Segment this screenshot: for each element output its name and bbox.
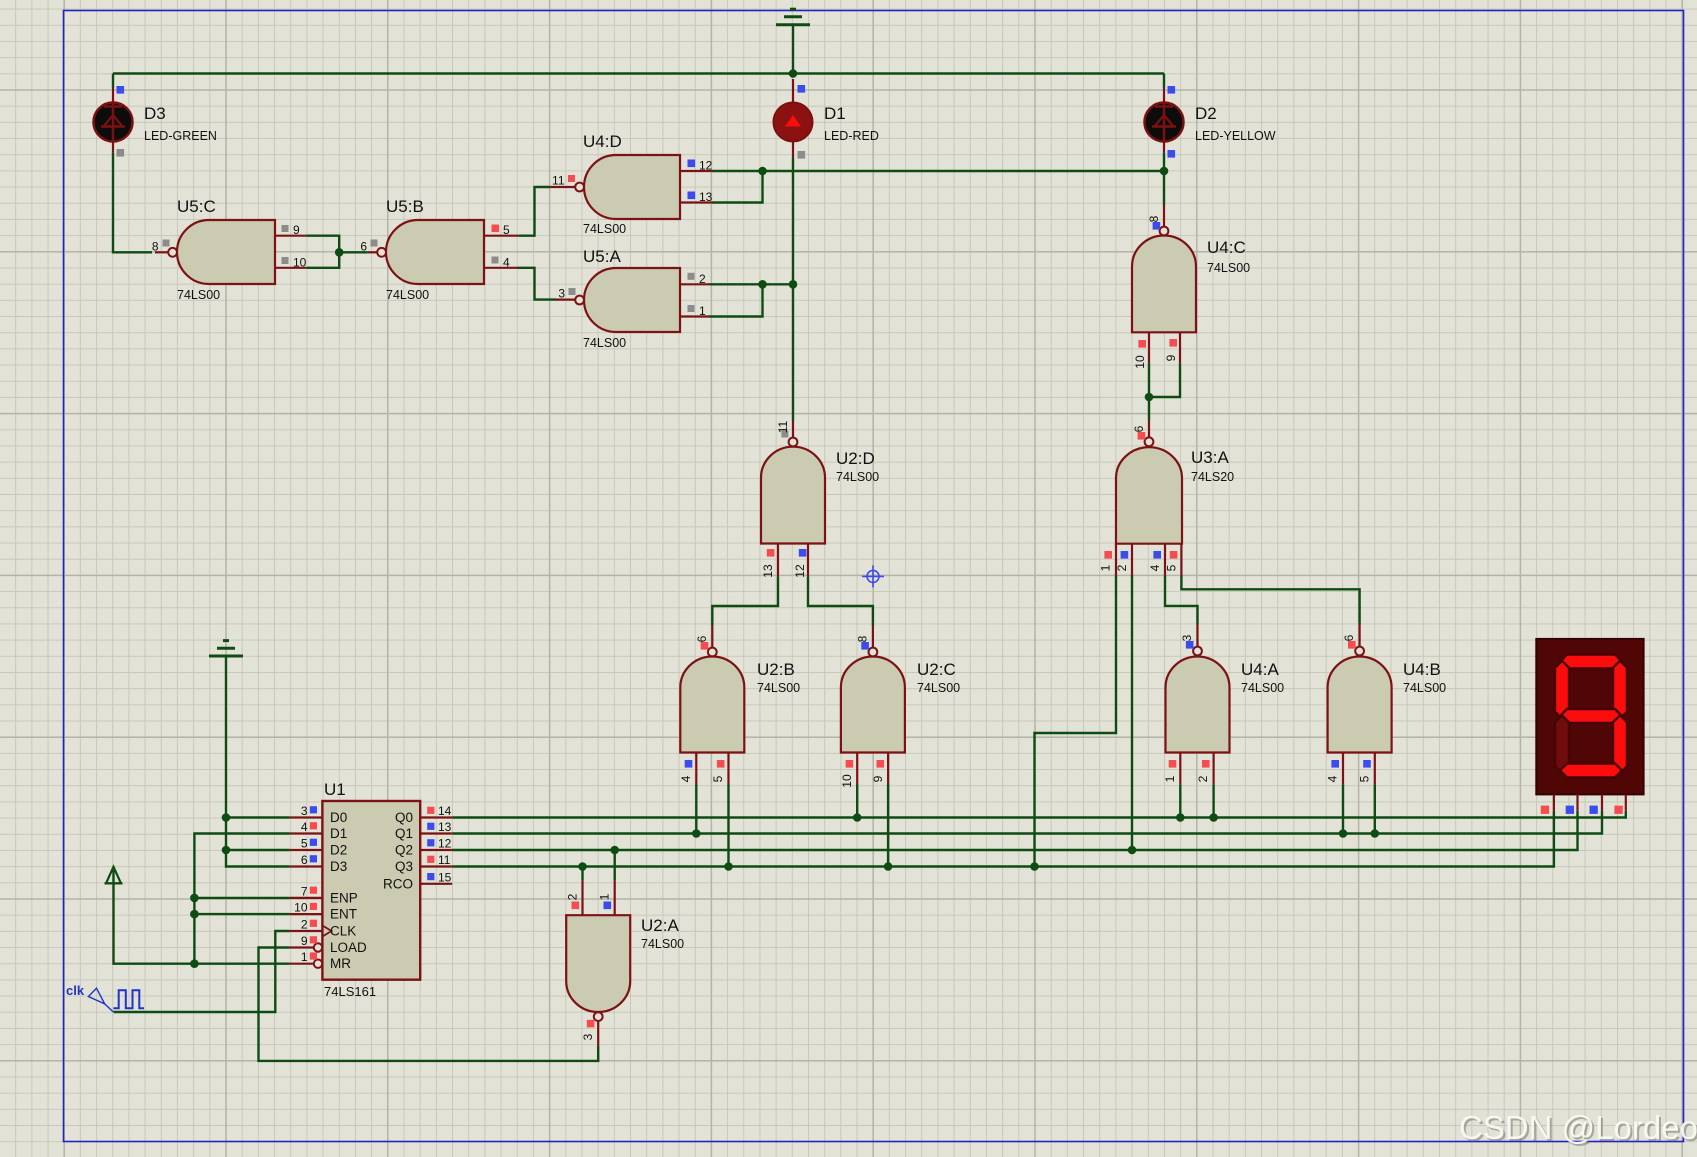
junction U2:C pin10 / Q0 bus [853, 813, 862, 822]
svg-text:5: 5 [503, 223, 510, 237]
pin marker U5:B 6 [371, 240, 378, 247]
junction D1 wire / U5:A outputs [789, 280, 798, 289]
svg-text:14: 14 [438, 804, 452, 818]
svg-text:12: 12 [699, 159, 713, 173]
pin marker U1 D0 [310, 806, 317, 813]
IC U1 74LS161 [322, 780, 420, 999]
pin label U4:C 10 [1133, 355, 1147, 369]
junction U2:A pin1 / Q2 bus [610, 846, 619, 855]
pin D3 anode [112, 88, 114, 103]
svg-text:D2: D2 [1195, 104, 1217, 123]
pin U4:B 6 (output) [1358, 624, 1360, 647]
pin label U5:A 1 [699, 304, 706, 318]
pin marker U5:B 4 [492, 257, 499, 264]
pin D1 cathode [792, 141, 794, 158]
nand gate U2:A 74LS00 [566, 915, 684, 1021]
pin label U5:C 10 [293, 255, 307, 269]
7-segment display body and segments [1536, 639, 1643, 795]
junction U4:A pin1 / Q0 bus [1176, 813, 1185, 822]
pin label U4:C 9 [1164, 354, 1178, 361]
svg-text:74LS00: 74LS00 [386, 288, 429, 302]
pin label U1 3 [301, 804, 308, 818]
svg-text:13: 13 [438, 820, 452, 834]
pin marker U2:D 11 [781, 431, 788, 438]
pin label U2:B 6 [695, 635, 709, 642]
wire bus Q0 [452, 811, 1626, 818]
pin marker U5:C 9 [282, 225, 289, 232]
wire U5:B pin5 to U4:D pin 11 [519, 187, 550, 236]
svg-text:74LS161: 74LS161 [324, 984, 376, 999]
pin U4:B 4 [1342, 753, 1344, 785]
pin marker U3:A 6 [1138, 432, 1146, 440]
junction U4:A pin2 / Q0 bus [1209, 813, 1218, 822]
svg-text:U4:D: U4:D [583, 132, 622, 151]
svg-text:11: 11 [776, 420, 790, 433]
svg-text:15: 15 [438, 870, 452, 884]
pin name U1 Q0 [395, 810, 413, 825]
svg-text:5: 5 [711, 775, 725, 782]
junction U4:B pin4 / Q1 bus [1339, 829, 1348, 838]
junction U2:B pin5 / Q3 bus [724, 862, 733, 871]
wire U5:A pin1 tie [709, 284, 763, 316]
pin label U2:A 2 [566, 893, 580, 900]
pin U4:A 3 (output) [1196, 624, 1198, 647]
svg-text:U3:A: U3:A [1191, 448, 1229, 467]
wire top rail D3-D1-D2 [113, 72, 1164, 74]
svg-text:74LS00: 74LS00 [641, 937, 684, 951]
pin U3:A 1 [1115, 544, 1117, 576]
svg-text:U5:B: U5:B [386, 197, 424, 216]
pin label U4:B 5 [1358, 775, 1372, 782]
pin label U5:A 3 [558, 287, 565, 301]
pin label U1 13 [438, 820, 452, 834]
nand gate U4:D 74LS00 [575, 132, 680, 236]
pin label U4:C 8 [1147, 215, 1161, 222]
svg-text:4: 4 [1148, 564, 1162, 571]
svg-text:5: 5 [301, 837, 308, 851]
pin label U2:C 10 [840, 774, 854, 788]
nand gate U2:D 74LS00 [761, 438, 879, 544]
pin U3:A 5 [1180, 544, 1182, 576]
wire U2:C pin9 to Q3 bus [887, 785, 889, 867]
pin label U2:A 3 [581, 1033, 595, 1040]
svg-text:1: 1 [598, 893, 612, 900]
pin U4:A 2 [1212, 753, 1214, 785]
svg-text:Q1: Q1 [395, 826, 413, 841]
pin U4:D 11 (input) [550, 186, 576, 188]
pin U2:D 12 [807, 544, 809, 577]
wire ground branch D0 [226, 816, 290, 818]
pin label U1 9 [301, 934, 308, 948]
svg-text:U4:C: U4:C [1207, 238, 1246, 257]
pin label U1 10 [294, 901, 308, 915]
pin U1 12 Q2 [420, 849, 452, 851]
pin U3:A 6 (input) [1148, 420, 1150, 437]
pin U2:B 4 [695, 753, 697, 785]
pin marker U1 LOAD [310, 936, 317, 943]
svg-text:12: 12 [793, 564, 807, 578]
pin U1 11 Q3 [420, 865, 452, 867]
pin marker U3:A 4 [1153, 551, 1161, 559]
wire middle ground to D0/D2/D3 [226, 657, 290, 867]
wire U2:D pin12 to U2:C pin 8 [808, 576, 873, 626]
pin label U5:B 6 [360, 239, 367, 253]
pin name U1 Q1 [395, 826, 413, 841]
svg-text:74LS00: 74LS00 [757, 681, 800, 695]
pin name U1 ENT [330, 907, 357, 922]
svg-text:13: 13 [699, 190, 713, 204]
pin marker U2:B 4 [685, 760, 693, 768]
wire clock to CLK pin [114, 931, 290, 1012]
svg-text:7: 7 [301, 884, 308, 898]
svg-text:U5:C: U5:C [177, 197, 216, 216]
LED D1 LED-RED [774, 103, 879, 144]
pin label U4:B 6 [1342, 634, 1356, 641]
wire U4:C tie to U3:A pin 6 [1148, 397, 1150, 420]
pin marker U1 Q0 [427, 807, 434, 814]
pin marker U2:C 8 [861, 642, 869, 650]
wire bus Q1 [452, 811, 1602, 834]
pin U2:D 13 [777, 544, 779, 577]
pin label U2:D 11 [776, 420, 790, 433]
nand gate U5:B 74LS00 [377, 197, 484, 302]
pin U4:D 13 [680, 201, 712, 203]
pin marker U5:B 5 [492, 225, 500, 233]
pin marker U5:A 3 [569, 288, 576, 295]
pin U4:A 1 [1179, 753, 1181, 785]
svg-text:9: 9 [301, 934, 308, 948]
pin marker U4:D 13 [688, 192, 696, 200]
svg-text:ENP: ENP [330, 890, 358, 905]
junction U4:D 12/13 tie [758, 167, 767, 176]
nand gate U2:B 74LS00 [680, 648, 800, 753]
junction ground / D2 [222, 846, 231, 855]
svg-text:11: 11 [438, 853, 451, 867]
wire top rail to D3 anode [112, 74, 114, 89]
pin marker U4:D 11 [568, 175, 575, 182]
svg-text:1: 1 [301, 950, 308, 964]
wire bus Q3 [452, 811, 1554, 867]
pin label U4:D 13 [699, 190, 713, 204]
pin 7seg 4 [1625, 794, 1627, 810]
pin marker U3:A 2 [1121, 551, 1129, 559]
svg-text:5: 5 [1358, 775, 1372, 782]
svg-text:Q0: Q0 [395, 810, 413, 825]
pin marker U2:A 1 [604, 902, 612, 910]
svg-text:3: 3 [1180, 634, 1194, 641]
svg-text:74LS00: 74LS00 [583, 222, 626, 236]
pin D3 cathode [112, 141, 114, 153]
svg-text:ENT: ENT [330, 907, 357, 922]
svg-text:U2:A: U2:A [641, 916, 679, 935]
pin label U1 6 [301, 853, 308, 867]
junction U3:A pin2 / Q2 bus [1128, 846, 1137, 855]
svg-text:9: 9 [1164, 354, 1178, 361]
junction U5:C output tie [335, 248, 344, 257]
wire bus Q2 [452, 811, 1577, 850]
pin U2:C 8 (input) [872, 626, 874, 648]
pin U4:B 5 [1374, 753, 1376, 785]
wire U4:D 13 tie [712, 171, 763, 203]
pin marker U1 MR [310, 952, 317, 959]
pin label U3:A 6 [1132, 425, 1146, 432]
svg-text:1: 1 [1163, 775, 1177, 782]
pin name U1 D3 [330, 859, 347, 874]
pin marker U1 Q1 [427, 823, 434, 830]
pin D2 cathode [1163, 141, 1165, 153]
svg-text:2: 2 [1196, 775, 1210, 782]
svg-text:D1: D1 [824, 104, 846, 123]
svg-text:LED-YELLOW: LED-YELLOW [1195, 129, 1276, 143]
pin U5:A 1 [680, 315, 709, 317]
pin 7seg 3 [1601, 794, 1603, 810]
pin marker U4:B 4 [1331, 760, 1339, 768]
wire U3:A pin2 to Q2 bus [1131, 576, 1133, 851]
pin U2:A 3 (output) [597, 1021, 599, 1046]
pin name U1 D2 [330, 843, 347, 858]
wire top rail to D2 anode [1163, 74, 1165, 89]
pin marker U1 RCO [427, 873, 434, 880]
svg-text:6: 6 [360, 239, 367, 253]
pin name U1 RCO [383, 876, 413, 891]
pin marker U4:A 3 [1186, 641, 1194, 649]
pin label U5:C 8 [152, 239, 159, 253]
junction tie / ENP [190, 894, 199, 903]
pin marker U1 D1 [310, 822, 317, 829]
svg-text:2: 2 [566, 893, 580, 900]
crosshair marker [862, 565, 884, 587]
svg-text:1: 1 [1099, 564, 1113, 571]
svg-text:LOAD: LOAD [330, 940, 367, 955]
wire U5:C output tie to U5:B pin 6 [339, 251, 368, 253]
pin D1 anode [792, 79, 794, 103]
pin marker U1 CLK [310, 920, 317, 927]
pin marker U4:B 5 [1363, 760, 1371, 768]
svg-text:D2: D2 [330, 843, 347, 858]
wire U3:A pin5 from U4:B output [1181, 576, 1359, 624]
wire U1 D1 input tie [194, 834, 290, 964]
pin U1 15 RCO [420, 883, 452, 885]
watermark CSDN @Lordeoc [1459, 1109, 1697, 1148]
pin label U4:D 12 [699, 159, 713, 173]
svg-text:U2:B: U2:B [757, 660, 795, 679]
svg-text:8: 8 [856, 635, 870, 642]
pin marker 7seg 2 [1566, 806, 1574, 814]
wire U2:A pin1 to Q2 bus [614, 850, 616, 880]
svg-text:4: 4 [503, 255, 510, 269]
pin label U4:B 4 [1326, 775, 1340, 782]
wire U4:B pin5 to Q1 bus [1374, 784, 1376, 833]
pin U4:C 10 [1148, 332, 1150, 363]
wire D3 cathode to U5:C pin 8 [113, 153, 152, 253]
junction U4:C output tie [1145, 393, 1154, 402]
pin marker D3 cathode [117, 149, 125, 157]
pin marker 7seg 4 [1614, 806, 1622, 814]
svg-text:74LS00: 74LS00 [917, 681, 960, 695]
pin label U2:A 1 [598, 893, 612, 900]
svg-text:3: 3 [301, 804, 308, 818]
pin U1 2 CLK [290, 926, 332, 937]
pin U4:D 12 [680, 170, 712, 172]
pin U1 3 D0 [290, 816, 323, 818]
pin label U2:B 5 [711, 775, 725, 782]
pin label U3:A 1 [1099, 564, 1113, 571]
pin name U1 LOAD [330, 940, 367, 955]
pin marker U3:A 5 [1170, 551, 1178, 559]
pin marker D2 anode [1168, 86, 1176, 94]
pin marker U2:A 2 [572, 902, 580, 910]
pin name U1 ENP [330, 890, 358, 905]
svg-text:5: 5 [1165, 564, 1179, 571]
ground (middle, data inputs) [209, 641, 243, 656]
pin label U1 15 [438, 870, 452, 884]
pin name U1 D0 [330, 810, 347, 825]
svg-text:RCO: RCO [383, 876, 413, 891]
wire nand rail U4:D 12 to D2 [712, 170, 1164, 172]
pin marker U2:D 13 [767, 549, 775, 557]
pin U5:A 2 [680, 283, 709, 285]
pin label U5:B 4 [503, 255, 510, 269]
svg-text:2: 2 [699, 272, 706, 286]
svg-text:D3: D3 [144, 104, 166, 123]
pin marker D1 anode [798, 85, 806, 93]
svg-text:10: 10 [1133, 355, 1147, 369]
pin name U1 Q2 [395, 843, 413, 858]
svg-text:CSDN @Lordeoc: CSDN @Lordeoc [1459, 1109, 1697, 1146]
pin marker U1 D3 [310, 855, 317, 862]
svg-text:13: 13 [761, 564, 775, 578]
pin label U3:A 2 [1115, 564, 1129, 571]
ground (top, GND net) [776, 9, 810, 25]
wire ground branch D2 [226, 849, 290, 851]
pin marker U3:A 1 [1104, 551, 1112, 559]
svg-text:6: 6 [1132, 425, 1146, 432]
pin marker U2:C 9 [877, 760, 885, 768]
pin marker U5:C 8 [163, 240, 170, 247]
svg-text:U4:B: U4:B [1403, 660, 1441, 679]
pin marker U5:C 10 [282, 257, 289, 264]
nand gate U2:C 74LS00 [841, 648, 960, 753]
pin marker D1 cathode [798, 151, 806, 159]
pin label U4:A 1 [1163, 775, 1177, 782]
pin label U2:D 12 [793, 564, 807, 578]
pin U1 5 D2 [290, 849, 323, 851]
pin label U1 5 [301, 837, 308, 851]
pin U3:A 2 [1131, 544, 1133, 576]
pin U5:B 6 (input) [368, 251, 378, 253]
pin U1 7 ENP [290, 897, 323, 899]
wire U4:A pin2 to Q0 bus [1212, 784, 1214, 817]
wire U4:B pin4 to Q1 bus [1342, 784, 1344, 833]
pin U2:A 2 [581, 880, 583, 915]
pin label U1 2 [301, 918, 308, 932]
svg-text:D3: D3 [330, 859, 347, 874]
pin marker U1 Q2 [427, 839, 434, 846]
svg-text:2: 2 [1115, 564, 1129, 571]
pin U1 1 MR [290, 960, 322, 968]
nand gate U4:A 74LS00 [1166, 647, 1285, 753]
pin label U4:D 11 [552, 174, 565, 188]
pin label U2:D 13 [761, 564, 775, 578]
svg-text:D0: D0 [330, 810, 347, 825]
pin marker U2:D 12 [799, 549, 807, 557]
pin U2:B 5 [727, 753, 729, 785]
pin label U4:A 3 [1180, 634, 1194, 641]
pin label U1 1 [301, 950, 308, 964]
pin U4:C 8 (input) [1163, 205, 1165, 227]
svg-text:9: 9 [293, 223, 300, 237]
svg-text:74LS00: 74LS00 [1403, 681, 1446, 695]
pin marker U5:A 1 [688, 305, 695, 312]
svg-text:4: 4 [1326, 775, 1340, 782]
wire ENP branch [194, 897, 290, 899]
pin marker U1 ENT [310, 903, 317, 910]
svg-text:LED-GREEN: LED-GREEN [144, 129, 217, 143]
pin marker U4:A 1 [1169, 760, 1177, 768]
svg-text:74LS00: 74LS00 [177, 288, 220, 302]
wire D2 cathode to U4:C pin 8 [1163, 153, 1165, 205]
pin marker U2:C 10 [846, 760, 854, 768]
wire U3:A pin1 to Q3 bus [1035, 576, 1117, 867]
pin U4:C 9 [1179, 332, 1181, 363]
wire U2:B pin4 to Q1 bus [695, 785, 697, 834]
svg-text:6: 6 [1342, 634, 1356, 641]
pin U2:C 9 [887, 753, 889, 785]
pin label U2:C 9 [871, 775, 885, 782]
LED D3 LED-GREEN [94, 103, 217, 144]
pin marker U2:B 6 [701, 642, 709, 650]
wire ground to top rail [792, 26, 794, 74]
wire U5:B pin4 to U5:A pin 3 [518, 268, 557, 300]
junction top rail / D1 [789, 69, 798, 78]
pin marker U1 ENP [310, 887, 317, 894]
pin 7seg 1 [1553, 794, 1555, 810]
pin label U1 12 [438, 837, 452, 851]
pin marker D2 cathode [1168, 150, 1176, 158]
svg-text:8: 8 [1147, 215, 1161, 222]
svg-text:U2:C: U2:C [917, 660, 956, 679]
pin U5:C 10 [275, 267, 306, 269]
pin U1 4 D1 [290, 832, 323, 834]
pin U3:A 4 [1164, 544, 1166, 576]
svg-text:U4:A: U4:A [1241, 660, 1279, 679]
svg-text:Q2: Q2 [395, 843, 413, 858]
svg-text:6: 6 [301, 853, 308, 867]
pin marker U4:C 9 [1169, 339, 1177, 347]
pin label U1 14 [438, 804, 452, 818]
wire LOAD to U2:A output [259, 948, 599, 1061]
pin marker U1 Q3 [427, 856, 434, 863]
svg-text:10: 10 [294, 901, 308, 915]
svg-text:U2:D: U2:D [836, 449, 875, 468]
pin 7seg 2 [1576, 794, 1578, 810]
svg-text:10: 10 [840, 774, 854, 788]
pin name U1 Q3 [395, 859, 413, 874]
svg-text:74LS20: 74LS20 [1191, 470, 1234, 484]
wire U4:A pin1 to Q0 bus [1179, 784, 1181, 817]
pin U5:A 3 (input) [556, 299, 575, 301]
nand gate U5:A 74LS00 [575, 247, 680, 350]
svg-text:11: 11 [552, 174, 565, 188]
pin U5:B 5 [484, 235, 519, 237]
junction U4:B pin5 / Q1 bus [1371, 829, 1380, 838]
svg-text:74LS00: 74LS00 [836, 470, 879, 484]
pin label U1 11 [438, 853, 451, 867]
wire ENT branch [194, 913, 290, 915]
wire U2:A pin2 to Q3 bus [581, 867, 583, 881]
pin U1 10 ENT [290, 913, 323, 915]
pin marker U1 D2 [310, 839, 317, 846]
